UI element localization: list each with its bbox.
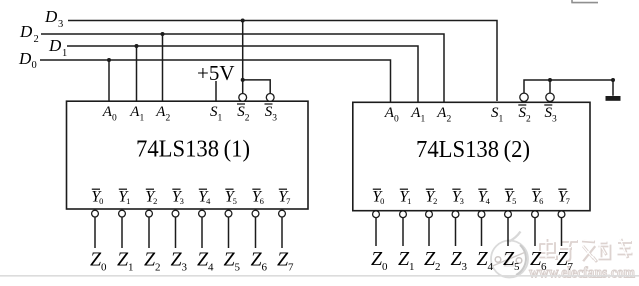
pin label A1 chip1	[129, 104, 144, 124]
label Z7 chip2	[556, 248, 573, 273]
pin Y5bar circle chip2	[505, 211, 512, 218]
svg-text:0: 0	[394, 115, 399, 125]
svg-text:2: 2	[526, 115, 531, 125]
node at ground corner	[611, 78, 615, 82]
label Z2 chip1	[144, 249, 161, 274]
svg-text:D: D	[48, 36, 62, 55]
svg-text:6: 6	[539, 196, 543, 206]
pin Y6bar circle chip2	[532, 211, 539, 218]
node on D3 at S2bar	[241, 19, 245, 23]
pin S2bar circle chip2	[520, 93, 528, 101]
pin Y0bar label chip1	[91, 189, 103, 207]
pin Y1bar label chip1	[118, 189, 130, 207]
svg-text:6: 6	[541, 261, 547, 273]
node on D1 at A1	[135, 44, 139, 48]
pin label S1 chip1	[210, 104, 222, 124]
svg-text:0: 0	[382, 261, 388, 273]
svg-text:2: 2	[153, 196, 157, 206]
pin Y0bar circle chip1	[92, 210, 99, 217]
svg-text:5: 5	[514, 261, 520, 273]
wire Z4 chip2	[481, 218, 483, 246]
label Z4 chip2	[476, 248, 493, 273]
label D3	[44, 7, 63, 30]
svg-text:0: 0	[32, 60, 37, 71]
wire Z6 chip2	[534, 218, 536, 246]
pin Y2bar circle chip1	[146, 210, 153, 217]
svg-text:1: 1	[421, 115, 426, 125]
pin Y4bar circle chip1	[199, 210, 206, 217]
wire +5V to S1 chip1	[215, 81, 217, 101]
svg-text:4: 4	[206, 196, 211, 206]
svg-text:7: 7	[566, 196, 570, 206]
label Z5 chip1	[223, 249, 240, 274]
svg-text:2: 2	[433, 196, 437, 206]
pin label A0 chip1	[102, 104, 117, 124]
svg-text:6: 6	[260, 196, 264, 206]
wire Z4 chip1	[201, 217, 203, 248]
pin label S2bar chip1	[237, 104, 250, 124]
label Z0 chip1	[90, 249, 107, 274]
svg-text:+5V: +5V	[197, 61, 235, 85]
svg-text:3: 3	[460, 196, 464, 206]
wire Z6 chip1	[255, 217, 257, 248]
label Z2 chip2	[424, 248, 441, 273]
wire A1 drop chip1	[136, 46, 138, 101]
svg-text:3: 3	[181, 262, 187, 274]
svg-text:74LS138 (2): 74LS138 (2)	[416, 137, 530, 163]
label Z3 chip1	[170, 249, 187, 274]
wire Z3 chip2	[455, 218, 457, 246]
svg-text:5: 5	[512, 196, 516, 206]
label D1	[48, 36, 67, 59]
pin Y4bar circle chip2	[478, 211, 485, 218]
pin Y6bar label chip1	[252, 189, 264, 207]
svg-text:3: 3	[180, 196, 184, 206]
wire D3 bus	[68, 21, 497, 102]
svg-text:3: 3	[552, 115, 557, 125]
op-amp U1: 74LS138(1) box	[67, 101, 309, 209]
pin Y1bar circle chip1	[119, 210, 126, 217]
svg-text:0: 0	[101, 262, 107, 274]
wire D0 bus	[40, 60, 391, 102]
wire Z5 chip1	[228, 217, 230, 248]
wire S2bar S3bar chip2 to ground	[524, 80, 613, 96]
ground	[606, 96, 621, 101]
pin Y5bar label chip1	[225, 189, 237, 207]
svg-text:3: 3	[461, 261, 467, 273]
label Z3 chip2	[450, 248, 467, 273]
svg-text:0: 0	[112, 114, 117, 124]
node branch S3bar chip1	[241, 78, 245, 82]
label Z1 chip1	[117, 249, 134, 274]
pin Y2bar label chip1	[145, 189, 157, 207]
pin Y6bar label chip2	[531, 189, 543, 207]
wire Z2 chip1	[148, 217, 150, 248]
pin label S3bar chip1	[265, 104, 278, 124]
wire S3bar chip2 drop	[549, 80, 551, 93]
wire Z1 chip2	[402, 218, 404, 246]
wire branch to S3bar chip1	[243, 80, 271, 94]
pin label S1 chip2	[491, 105, 503, 125]
node on D2 at A2	[161, 32, 165, 36]
label D2	[19, 22, 39, 45]
svg-text:7: 7	[567, 261, 573, 273]
op-amp U2: 74LS138(2) box	[353, 102, 590, 210]
svg-text:1: 1	[407, 196, 411, 206]
pin Y5bar label chip2	[504, 189, 516, 207]
wire A0 drop chip1	[108, 60, 110, 101]
label Z6 chip2	[530, 248, 547, 273]
svg-text:1: 1	[62, 48, 67, 59]
pin Y3bar label chip1	[172, 189, 184, 207]
svg-text:1: 1	[128, 262, 134, 274]
wire D2 bus	[41, 34, 444, 102]
svg-text:3: 3	[58, 19, 63, 30]
pin Y7bar circle chip1	[279, 210, 286, 217]
svg-text:3: 3	[272, 114, 277, 124]
svg-text:1: 1	[140, 114, 145, 124]
pin Y6bar circle chip1	[252, 210, 259, 217]
svg-text:2: 2	[245, 114, 250, 124]
svg-text:4: 4	[486, 196, 491, 206]
svg-text:2: 2	[447, 115, 452, 125]
svg-text:74LS138 (1): 74LS138 (1)	[136, 137, 250, 163]
wire Z7 chip2	[561, 218, 563, 246]
faint bottom rule	[0, 275, 639, 277]
svg-text:4: 4	[208, 262, 214, 274]
pin label A2 chip2	[436, 105, 451, 125]
pin Y1bar circle chip2	[400, 211, 407, 218]
svg-text:D: D	[18, 49, 32, 68]
wire D1 bus	[67, 46, 418, 102]
svg-text:2: 2	[155, 262, 161, 274]
pin label S3bar chip2	[544, 105, 557, 125]
label Z5 chip2	[503, 248, 520, 273]
node above S3bar chip2	[548, 78, 552, 82]
svg-text:2: 2	[435, 261, 441, 273]
node on D0 at A0	[107, 58, 111, 62]
pin Y3bar circle chip1	[172, 210, 179, 217]
pin Y1bar label chip2	[399, 189, 411, 207]
wire Z0 chip2	[375, 218, 377, 246]
svg-text:6: 6	[261, 262, 267, 274]
svg-text:7: 7	[286, 196, 290, 206]
pin label A1 chip2	[410, 105, 425, 125]
pin Y0bar label chip2	[372, 189, 384, 207]
wire Z1 chip1	[121, 217, 123, 248]
svg-text:7: 7	[288, 262, 294, 274]
pin Y7bar circle chip2	[558, 211, 565, 218]
label Z6 chip1	[250, 249, 267, 274]
pin Y2bar label chip2	[425, 189, 437, 207]
pin Y3bar circle chip2	[452, 211, 459, 218]
pin S3bar circle chip1	[266, 94, 274, 102]
label Z0 chip2	[371, 248, 388, 273]
watermark logo circle	[491, 232, 528, 278]
wire Z5 chip2	[507, 218, 509, 246]
pin Y4bar label chip1	[198, 189, 211, 207]
wire Z2 chip2	[428, 218, 430, 246]
label D0	[18, 49, 37, 71]
svg-text:1: 1	[218, 114, 223, 124]
svg-text:2: 2	[34, 34, 39, 45]
svg-text:D: D	[19, 22, 33, 41]
wire A2 drop chip1	[162, 34, 164, 101]
top-right gray partial box	[571, 0, 598, 3]
pin Y0bar circle chip2	[373, 211, 380, 218]
label Z1 chip2	[398, 248, 415, 273]
label Z7 chip1	[277, 249, 294, 274]
wire Z7 chip1	[281, 217, 283, 248]
wire Z3 chip1	[175, 217, 177, 248]
svg-text:0: 0	[99, 196, 103, 206]
wire D3 to S2bar chip1	[242, 21, 244, 94]
pin Y7bar label chip2	[558, 189, 570, 207]
svg-text:0: 0	[380, 196, 384, 206]
pin S2bar circle chip1	[239, 94, 247, 102]
svg-text:1: 1	[126, 196, 130, 206]
svg-text:D: D	[44, 7, 58, 26]
pin Y5bar circle chip1	[225, 210, 232, 217]
pin label A0 chip2	[384, 105, 399, 125]
pin Y2bar circle chip2	[426, 211, 433, 218]
pin label S2bar chip2	[518, 105, 531, 125]
pin Y3bar label chip2	[452, 189, 464, 207]
pin label A2 chip1	[155, 104, 170, 124]
label Z4 chip1	[197, 249, 214, 274]
pin S3bar circle chip2	[546, 93, 554, 101]
pin Y7bar label chip1	[278, 189, 290, 207]
svg-text:1: 1	[409, 261, 415, 273]
svg-text:5: 5	[233, 196, 237, 206]
svg-text:5: 5	[234, 262, 240, 274]
pin Y4bar label chip2	[478, 189, 491, 207]
watermark chinese text 电子发烧友	[540, 239, 633, 262]
svg-text:4: 4	[487, 261, 493, 273]
svg-text:1: 1	[499, 115, 504, 125]
wire Z0 chip1	[94, 217, 96, 248]
svg-text:2: 2	[166, 114, 171, 124]
